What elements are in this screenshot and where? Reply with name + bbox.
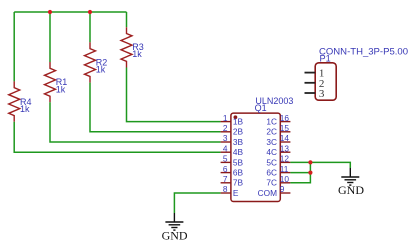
svg-text:5C: 5C: [266, 157, 277, 167]
svg-text:3: 3: [319, 88, 325, 100]
svg-text:1: 1: [223, 113, 228, 123]
pin 3 of P1: [305, 88, 325, 100]
svg-text:3B: 3B: [233, 137, 244, 147]
svg-text:1k: 1k: [132, 49, 142, 59]
svg-text:7B: 7B: [233, 178, 244, 188]
svg-text:GND: GND: [338, 183, 364, 197]
wire R2 bottom to IC: [90, 83, 221, 132]
resistor R2: [85, 42, 108, 82]
wire R4 bottom to IC: [14, 122, 220, 153]
svg-text:4C: 4C: [266, 147, 277, 157]
pin 3 stub 3B: [221, 133, 244, 147]
svg-text:5: 5: [223, 154, 228, 164]
pin 11 stub 6C: [266, 164, 290, 178]
svg-text:4: 4: [223, 143, 228, 153]
wire pin 5C to ground: [290, 162, 350, 168]
resistor R3: [121, 27, 144, 67]
wire R3 bottom to IC: [127, 68, 221, 122]
svg-text:P1: P1: [320, 53, 331, 63]
resistor R1: [45, 62, 68, 102]
svg-text:6: 6: [223, 164, 228, 174]
wire top bus: [14, 11, 126, 13]
pin 7 stub 7B: [221, 174, 244, 188]
pin 14 stub 3C: [266, 133, 290, 147]
svg-text:1k: 1k: [20, 104, 30, 114]
svg-text:2C: 2C: [266, 127, 277, 137]
svg-text:6B: 6B: [233, 168, 244, 178]
svg-text:6C: 6C: [266, 168, 277, 178]
pin 10 stub 7C: [266, 174, 290, 188]
svg-text:14: 14: [280, 133, 290, 143]
wire R2 top drop: [89, 12, 91, 42]
svg-text:3C: 3C: [266, 137, 277, 147]
svg-text:8: 8: [223, 184, 228, 194]
svg-text:E: E: [233, 188, 239, 198]
pin 9 stub COM: [258, 184, 291, 198]
pin 8 stub E: [221, 184, 239, 198]
svg-text:16: 16: [280, 113, 290, 123]
svg-text:9: 9: [280, 184, 285, 194]
pin 13 stub 4C: [266, 143, 290, 157]
svg-text:7C: 7C: [266, 178, 277, 188]
svg-text:7: 7: [223, 174, 228, 184]
wire pin 6C to node: [290, 172, 310, 174]
svg-text:5B: 5B: [233, 157, 244, 167]
resistor R4: [9, 81, 32, 121]
svg-text:13: 13: [280, 143, 290, 153]
svg-text:CONN-TH_3P-P5.00: CONN-TH_3P-P5.00: [319, 46, 408, 56]
connector P1 CONN-TH_3P-P5.00: [315, 46, 408, 100]
pin 15 stub 2C: [266, 123, 290, 137]
pin 6 stub 6B: [221, 164, 244, 178]
pin 5 stub 5B: [221, 154, 244, 168]
svg-text:10: 10: [280, 174, 290, 184]
wire R3 top drop: [126, 12, 128, 27]
svg-text:1k: 1k: [96, 65, 106, 75]
wire R1 bottom to IC: [50, 102, 221, 142]
svg-text:11: 11: [280, 164, 289, 174]
pin 12 stub 5C: [266, 154, 290, 168]
pin 1 stub 1B: [221, 113, 244, 127]
node junction dot at R1 top: [48, 10, 52, 14]
svg-text:2B: 2B: [233, 127, 244, 137]
wire pin E to ground: [174, 193, 220, 213]
pin 16 stub 1C: [266, 113, 290, 127]
svg-text:4B: 4B: [233, 147, 244, 157]
svg-text:Q1: Q1: [255, 103, 267, 113]
svg-text:2: 2: [223, 123, 228, 133]
wire pin 7C to node: [290, 162, 310, 182]
pin 2 stub 2B: [221, 123, 244, 137]
IC U1 ULN2003 body: [231, 96, 294, 202]
pin 1 of P1: [305, 68, 325, 80]
svg-text:3: 3: [223, 133, 228, 143]
node junction dot at 6C: [308, 171, 312, 175]
wire R4 top drop: [13, 12, 15, 81]
svg-text:1k: 1k: [56, 84, 66, 94]
svg-text:15: 15: [280, 123, 290, 133]
svg-text:COM: COM: [258, 188, 277, 198]
svg-text:GND: GND: [162, 229, 188, 243]
ground GND bottom: [162, 213, 188, 243]
svg-text:1C: 1C: [266, 117, 277, 127]
svg-text:12: 12: [280, 154, 290, 164]
pin 4 stub 4B: [221, 143, 244, 157]
node junction dot at 5C: [308, 160, 312, 164]
pin 2 of P1: [305, 78, 325, 90]
svg-text:1B: 1B: [233, 117, 244, 127]
wire R1 top drop: [49, 12, 51, 62]
ground GND right: [338, 168, 364, 197]
node junction dot at R2 top: [88, 10, 92, 14]
